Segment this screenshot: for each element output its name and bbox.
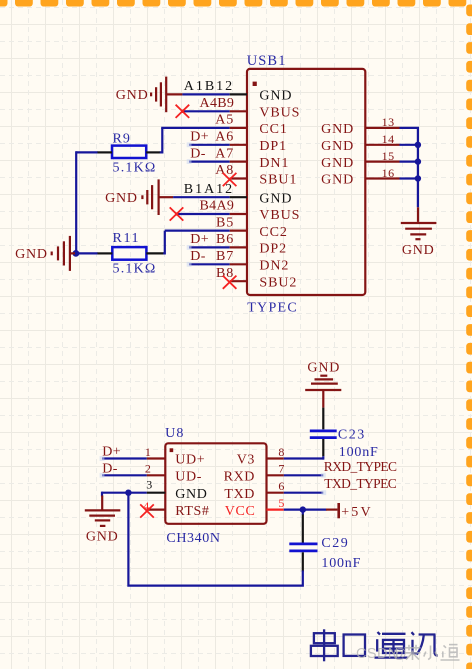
no-ERC cross at A8 [223, 173, 237, 186]
junction [415, 142, 421, 148]
wire GND to A1B12 [182, 93, 229, 95]
wire pin 14 to GND bus [400, 144, 420, 146]
svg-text:5.1KΩ: 5.1KΩ [113, 261, 157, 276]
svg-text:U8: U8 [165, 426, 185, 441]
pin A7 [230, 161, 247, 163]
svg-text:GND: GND [321, 139, 354, 154]
svg-text:DP2: DP2 [259, 242, 287, 257]
svg-text:TXD_TYPEC: TXD_TYPEC [324, 476, 396, 491]
svg-text:VCC: VCC [225, 504, 256, 519]
svg-text:+5V: +5V [341, 505, 373, 520]
svg-text:R9: R9 [113, 131, 131, 146]
svg-text:V3: V3 [237, 453, 255, 468]
pin 2 [147, 474, 166, 476]
svg-text:D+: D+ [102, 445, 121, 460]
svg-text:B7: B7 [216, 249, 234, 264]
junction R11/GND [73, 250, 80, 257]
svg-text:SBU1: SBU1 [259, 173, 297, 188]
power port +5V [326, 509, 337, 511]
svg-text:UD+: UD+ [175, 453, 205, 468]
wire GND to B1A12 [173, 196, 230, 198]
pin 6 [267, 492, 284, 494]
wire endpoint markers [187, 142, 192, 147]
svg-text:DP1: DP1 [259, 139, 287, 154]
svg-text:CC1: CC1 [259, 122, 287, 137]
wire D- to pin 2 [102, 474, 147, 476]
svg-text:TYPEC: TYPEC [247, 301, 298, 316]
pin B6 [230, 246, 247, 248]
svg-text:A4B9: A4B9 [200, 96, 235, 111]
svg-text:VBUS: VBUS [259, 208, 300, 223]
svg-text:GND: GND [105, 191, 138, 206]
svg-text:B4A9: B4A9 [200, 199, 235, 214]
svg-text:100nF: 100nF [321, 556, 361, 571]
wire R9 to A5 riser [160, 128, 163, 152]
svg-text:D-: D- [190, 249, 205, 264]
svg-text:CH340N: CH340N [166, 531, 220, 546]
svg-text:DN2: DN2 [259, 259, 289, 274]
svg-text:RTS#: RTS# [175, 504, 209, 519]
svg-text:A5: A5 [215, 113, 234, 128]
wire R11 left [79, 252, 98, 254]
pin A4B9 [230, 110, 247, 112]
wire stub A4B9 [183, 110, 230, 112]
svg-text:GND: GND [321, 156, 354, 171]
wire pin 7 RXD_TYPEC [284, 474, 324, 476]
pin A6 [230, 144, 247, 146]
wire R11 to B5 riser [163, 231, 165, 254]
pin C29.2 [302, 552, 304, 571]
pin 16 [365, 177, 399, 179]
pin 15 [365, 161, 399, 163]
junction [415, 175, 421, 181]
power port GND (U8 pin 3) [85, 496, 121, 526]
svg-text:GND: GND [321, 173, 354, 188]
svg-text:C23: C23 [338, 428, 366, 443]
junction pin5/C29 [300, 506, 306, 512]
wire bus R9-R11 vertical [75, 151, 77, 253]
pin C23.2 [322, 439, 324, 456]
pin R11.2 [146, 252, 163, 254]
watermark CSDN [356, 645, 460, 662]
pin 5 [267, 509, 284, 511]
pin 7 [267, 474, 284, 476]
svg-text:3: 3 [146, 478, 152, 492]
svg-text:CC2: CC2 [259, 225, 287, 240]
wire drop to GND port [101, 492, 103, 497]
svg-text:USB1: USB1 [247, 53, 287, 69]
pin 1 [147, 457, 166, 459]
wire GND bus vertical [417, 128, 419, 207]
svg-text:5.1KΩ: 5.1KΩ [113, 160, 157, 175]
wire pin 16 to GND bus [400, 177, 420, 179]
svg-text:RXD_TYPEC: RXD_TYPEC [324, 459, 397, 474]
wire D- (B7) [189, 263, 230, 265]
svg-text:GND: GND [86, 529, 119, 544]
no-ERC cross at B8 [223, 276, 237, 289]
no-ERC cross at pin 4 (RTS#) [140, 504, 154, 517]
pin B5 [230, 230, 247, 232]
wire pin 5 to +5V [284, 509, 327, 511]
pin A1B12 [230, 93, 247, 95]
svg-text:1: 1 [145, 445, 151, 459]
svg-text:DN1: DN1 [259, 156, 289, 171]
pin R9.1 [97, 151, 112, 153]
wire C29 return to pin3 junction [128, 492, 302, 586]
wire pin 3 (GND) [102, 492, 147, 494]
wire pin 15 to GND bus [400, 161, 420, 163]
svg-text:100nF: 100nF [339, 445, 379, 460]
pin 3 [147, 492, 166, 494]
pin 4 [147, 509, 166, 511]
wire D- (A7) [189, 161, 230, 163]
svg-text:6: 6 [278, 479, 284, 493]
svg-text:A6: A6 [215, 130, 234, 145]
pin 14 [365, 144, 399, 146]
junction [415, 158, 421, 164]
wire R9 to A5 [161, 127, 230, 129]
wire D+ (B6) [189, 246, 230, 248]
no-ERC cross at B4A9 [170, 207, 184, 220]
wire D+ to pin 1 [102, 457, 147, 459]
pin R11.1 [97, 252, 112, 254]
svg-text:5: 5 [278, 496, 284, 510]
wire R9 left [76, 151, 97, 153]
wire junction to C29 [302, 510, 304, 515]
pin 13 [365, 127, 399, 129]
pin B4A9 [230, 213, 247, 215]
junction pin3/C29 return [125, 490, 131, 496]
svg-text:14: 14 [382, 132, 395, 146]
pin B1A12 [230, 196, 247, 198]
svg-text:8: 8 [278, 445, 284, 459]
svg-text:GND: GND [307, 360, 340, 375]
wire D+ (A6) [189, 144, 230, 146]
svg-text:D+: D+ [190, 232, 209, 247]
svg-text:16: 16 [382, 166, 395, 180]
svg-text:B1A12: B1A12 [184, 182, 234, 197]
svg-text:GND: GND [321, 122, 354, 137]
svg-text:D-: D- [102, 461, 118, 476]
svg-text:R11: R11 [113, 231, 141, 246]
svg-text:TXD: TXD [224, 487, 255, 502]
svg-text:A1B12: A1B12 [184, 79, 234, 94]
svg-text:7: 7 [278, 462, 284, 476]
svg-text:B5: B5 [216, 215, 234, 230]
svg-text:GND: GND [402, 243, 435, 258]
power port GND (USB shield) [401, 207, 437, 239]
svg-text:RXD: RXD [224, 470, 255, 485]
wire pin 8 to C23 [284, 457, 324, 459]
pin B7 [230, 263, 247, 265]
IC U8 body [165, 443, 266, 524]
wire pin 13 to GND bus [400, 127, 420, 129]
svg-text:C29: C29 [321, 536, 349, 551]
svg-text:B6: B6 [216, 232, 234, 247]
wire stub B4A9 [177, 213, 230, 215]
title text 串口通讯 (serial communication) [311, 629, 438, 661]
pin A5 [230, 127, 247, 129]
svg-text:VBUS: VBUS [259, 106, 300, 121]
svg-text:D-: D- [190, 146, 205, 161]
svg-text:D+: D+ [190, 130, 209, 145]
connector USB1 body [247, 69, 365, 295]
svg-text:SBU2: SBU2 [259, 275, 297, 290]
svg-text:GND: GND [259, 89, 292, 104]
pin C23.1 [322, 408, 324, 430]
svg-text:GND: GND [15, 247, 48, 262]
wire C23 to pin8 [322, 456, 324, 459]
wire pin 6 TXD_TYPEC [284, 492, 324, 494]
wire R11 to B5 [165, 230, 230, 232]
pin R9.2 [146, 151, 160, 153]
svg-text:GND: GND [175, 487, 207, 502]
pin B8 [230, 280, 247, 282]
svg-text:GND: GND [259, 191, 292, 206]
pin 8 [267, 457, 284, 459]
svg-text:13: 13 [382, 115, 395, 129]
svg-text:UD-: UD- [175, 470, 202, 485]
svg-text:2: 2 [145, 462, 151, 476]
no-ERC cross at A4B9 [176, 105, 190, 118]
svg-text:A7: A7 [215, 146, 234, 161]
pin C29.1 [302, 515, 304, 543]
svg-text:GND: GND [116, 88, 149, 103]
svg-text:15: 15 [382, 149, 395, 163]
pin A8 [230, 177, 247, 179]
